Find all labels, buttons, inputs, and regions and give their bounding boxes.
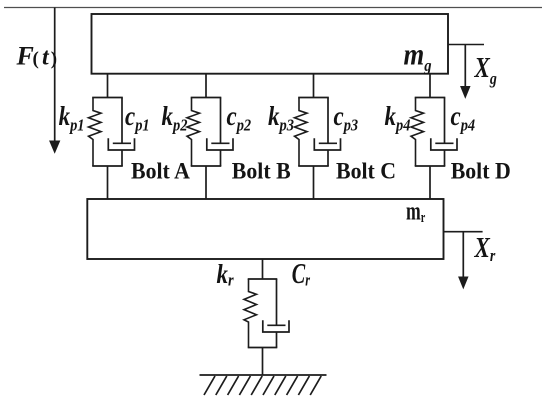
svg-text:Bolt A: Bolt A — [131, 158, 191, 184]
wire: connector m_r to base isolator — [262, 259, 264, 279]
svg-text:kp2: kp2 — [162, 102, 188, 134]
svg-text:cp2: cp2 — [227, 102, 252, 134]
damper c_p1 — [108, 98, 134, 167]
force arrow F(t) — [50, 8, 60, 153]
wire: top connector Bolt D — [429, 74, 431, 98]
svg-text:cp3: cp3 — [334, 102, 359, 134]
svg-text:Cr: Cr — [292, 259, 310, 290]
svg-text:cp4: cp4 — [451, 102, 476, 134]
wire: top connector Bolt B — [205, 74, 207, 98]
wire: bottom connector Bolt B — [205, 166, 207, 199]
wire: housing bars Bolt B — [191, 98, 222, 167]
svg-text:cp1: cp1 — [125, 102, 150, 134]
mass block m_g — [92, 14, 449, 74]
wire: housing bars Bolt C — [298, 98, 329, 167]
wire: bottom connector Bolt D — [429, 166, 431, 199]
svg-text:Xr: Xr — [474, 232, 496, 266]
svg-text:kp3: kp3 — [268, 102, 294, 134]
spring k_p4 — [411, 98, 424, 167]
wire: bottom connector Bolt A — [107, 166, 109, 199]
spring k_r — [244, 279, 257, 348]
mass block m_r — [87, 199, 443, 259]
displacement arrow X_g — [461, 45, 470, 98]
spring k_p1 — [89, 98, 102, 167]
displacement arrow X_r — [459, 232, 468, 288]
wire: housing bars base isolator — [248, 279, 278, 348]
svg-text:kp1: kp1 — [59, 102, 85, 134]
damper c_p3 — [314, 98, 340, 167]
damper c_p2 — [207, 98, 233, 167]
svg-text:Bolt D: Bolt D — [451, 158, 511, 184]
svg-text:Bolt B: Bolt B — [232, 158, 291, 184]
svg-text:F(t): F(t) — [16, 42, 58, 71]
svg-text:kr: kr — [217, 260, 235, 289]
ground — [200, 375, 327, 395]
wire: X_g tick — [448, 44, 484, 46]
wire: connector isolator to ground — [262, 348, 264, 376]
svg-text:Bolt C: Bolt C — [336, 158, 396, 184]
wire: top connector Bolt C — [313, 74, 315, 98]
svg-text:Xg: Xg — [474, 52, 497, 89]
wire: top reference line — [4, 7, 542, 9]
wire: housing bars Bolt A — [92, 98, 123, 167]
damper C_r — [263, 279, 289, 348]
wire: bottom connector Bolt C — [313, 166, 315, 199]
wire: X_r tick — [444, 231, 483, 233]
spring k_p3 — [295, 98, 308, 167]
damper c_p4 — [431, 98, 457, 167]
svg-text:kp4: kp4 — [385, 102, 411, 134]
wire: housing bars Bolt D — [415, 98, 446, 167]
wire: top connector Bolt A — [107, 74, 109, 98]
spring k_p2 — [187, 98, 200, 167]
